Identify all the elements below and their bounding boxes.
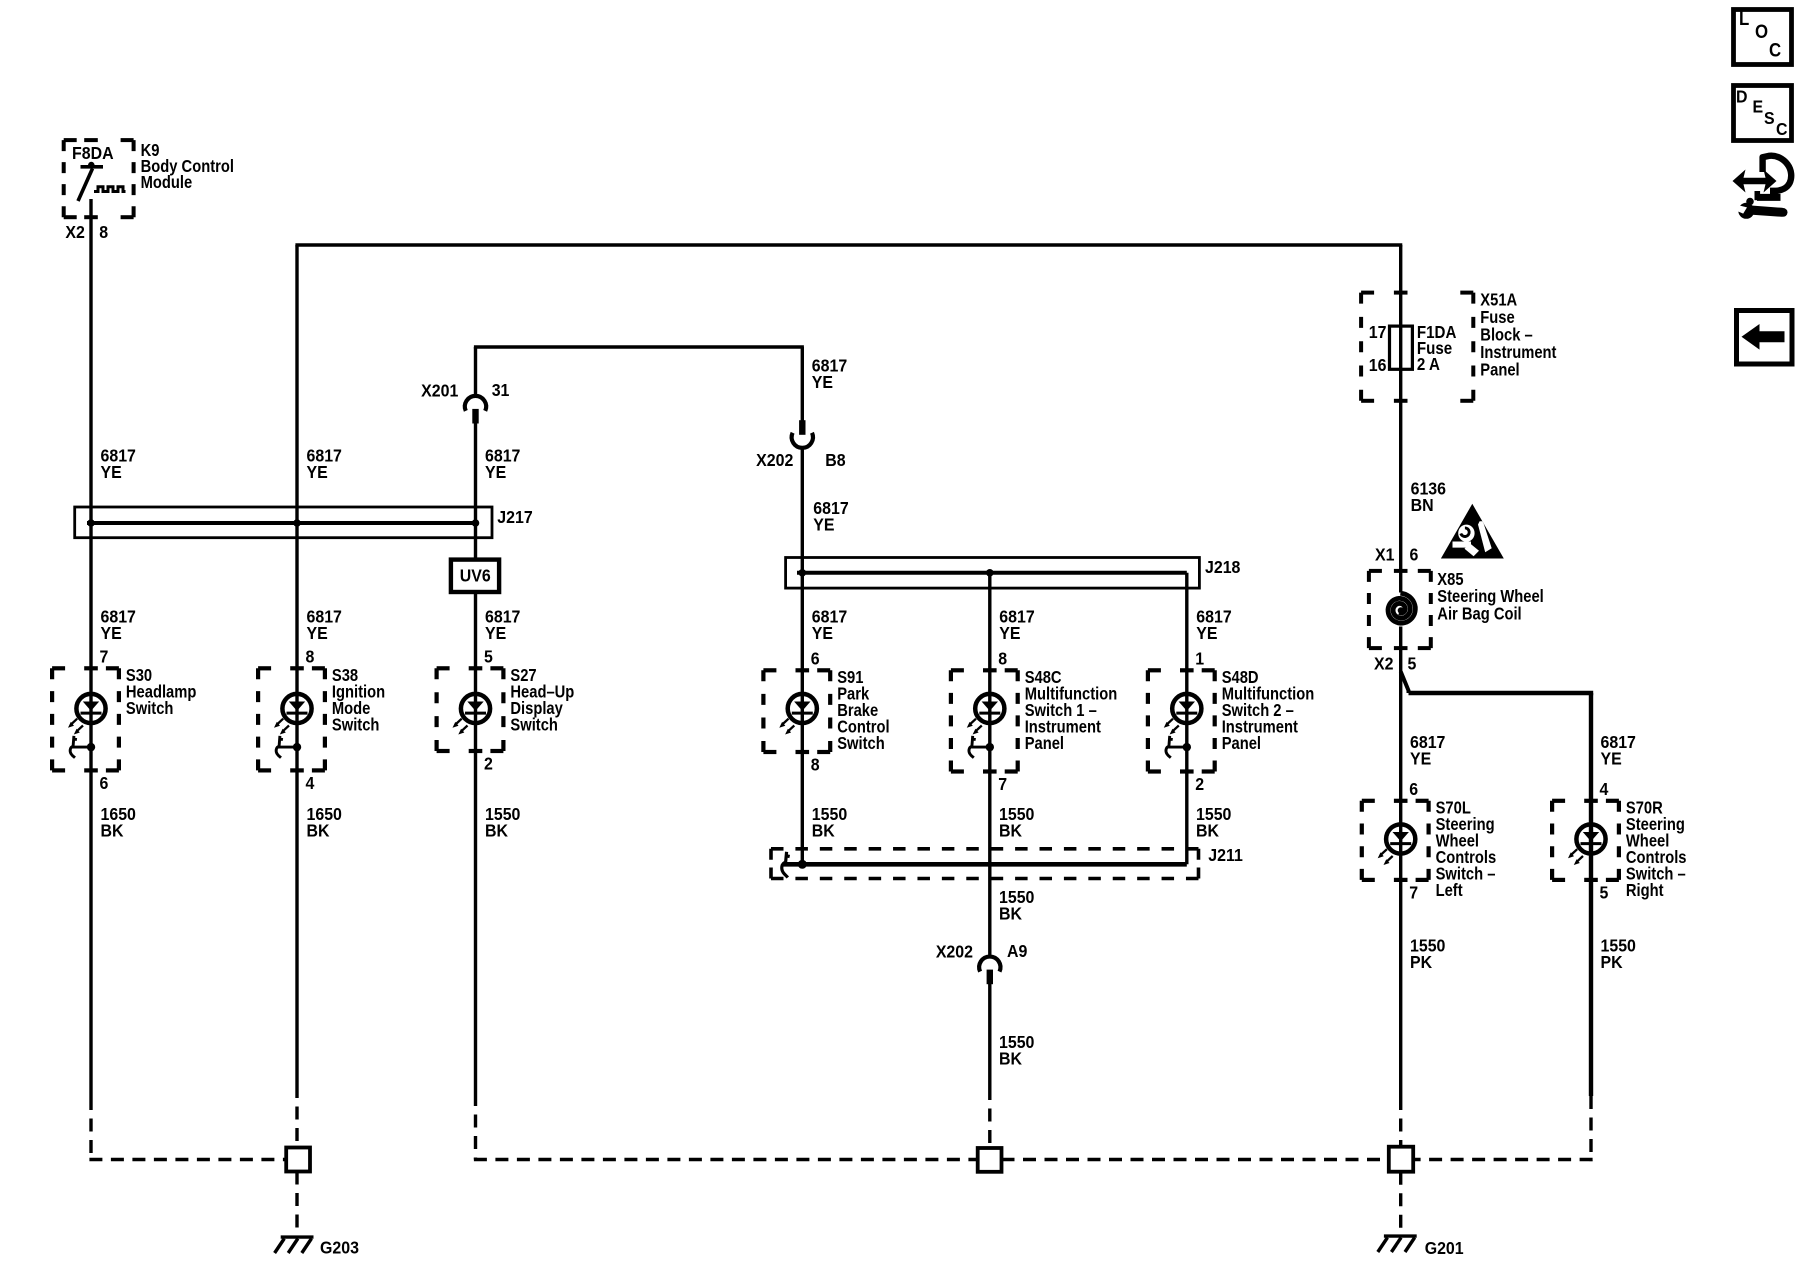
svg-text:F8DA: F8DA [72,143,114,163]
svg-text:UV6: UV6 [460,566,491,586]
icon wrench [1738,203,1754,219]
wire: H1 horizontal from corner to fuse block leg [295,243,1402,246]
svg-text:YE: YE [1601,749,1622,769]
wire: H1 corner down through fuse F1DA to X85 coil (6136 BN) [1399,245,1402,593]
BCM driver symbol [81,165,104,169]
wire: dashed to G201 splice (S70L leg) [1399,1097,1402,1147]
wire: dashed corner S70R leg to ground rail [1589,1096,1592,1161]
dashed wire splice to ground G203 [295,1172,298,1233]
svg-text:Left: Left [1436,881,1463,901]
node: J218 dot at S48C leg [986,569,994,577]
node: J211 dot at S91 leg [798,860,807,869]
option box UV6 [451,560,499,592]
svg-text:X2: X2 [1374,654,1393,674]
svg-text:BK: BK [485,821,509,841]
svg-text:X201: X201 [421,381,458,401]
svg-text:Panel: Panel [1222,734,1261,754]
icon LOC box [1734,10,1792,65]
splice square (middle, X202 A9 leg) [978,1148,1002,1172]
svg-text:YE: YE [485,623,506,643]
svg-text:J211: J211 [1208,845,1243,865]
svg-text:7: 7 [1409,883,1418,903]
wire: dashed rail from S30 corner to G203 splice [89,1158,286,1161]
svg-text:YE: YE [1410,749,1431,769]
svg-text:6: 6 [1410,545,1419,565]
fuse block X51A (dashed box) [1361,291,1374,295]
splice square (G203 leg) [286,1148,310,1172]
svg-text:Switch: Switch [126,699,174,719]
svg-text:PK: PK [1410,952,1433,972]
svg-text:YE: YE [813,515,834,535]
ground G203 [281,1235,314,1238]
wire: J218 right end down through S48D to J211 right end (6817 YE / 1550 BK) [1185,573,1188,865]
svg-text:YE: YE [999,623,1020,643]
wire: branch kink to S70R feed [1401,672,1409,694]
X85 clockspring spiral [1388,593,1415,623]
svg-text:G201: G201 [1425,1238,1464,1258]
svg-text:YE: YE [307,623,328,643]
wire: H3 horizontal to S70R leg [1409,691,1594,695]
connector X201 pin 31 [465,396,486,411]
splice square (G201 leg) [1389,1147,1413,1172]
svg-text:J217: J217 [497,507,532,527]
wire: S70R leg down through switch (6817 YE / 1550 PK) [1589,693,1593,1096]
svg-text:PK: PK [1601,952,1624,972]
wire: H2 corner down to X201 pin 31 [474,347,477,397]
svg-text:5: 5 [1600,883,1609,903]
svg-text:E: E [1753,97,1764,117]
switch S48C Multifunction Switch 1 - Instrument Panel [951,668,964,672]
svg-text:16: 16 [1369,355,1387,375]
svg-text:X2: X2 [65,222,84,242]
dashed wire splice to ground G201 [1399,1172,1402,1231]
svg-text:31: 31 [492,380,510,400]
svg-text:BN: BN [1411,495,1434,515]
svg-text:L: L [1739,8,1749,29]
svg-text:Panel: Panel [1480,360,1519,380]
module K9 Body Control Module (dashed box) [64,138,77,142]
svg-text:8: 8 [998,649,1007,669]
svg-text:BK: BK [999,904,1023,924]
svg-text:2: 2 [484,754,493,774]
svg-text:S: S [1764,108,1775,128]
svg-text:C: C [1776,119,1787,139]
svg-text:YE: YE [485,462,506,482]
icon DESC box [1734,86,1792,141]
svg-text:17: 17 [1369,322,1387,342]
svg-text:BK: BK [307,821,331,841]
svg-text:7: 7 [100,647,109,667]
wire: X201 through J217, UV6, S27 (6817 YE / 1550 BK) [474,423,477,1093]
svg-text:6: 6 [1409,779,1418,799]
svg-text:YE: YE [1196,623,1217,643]
svg-text:C: C [1769,40,1781,61]
svg-text:B8: B8 [825,450,845,470]
svg-text:2 A: 2 A [1417,354,1440,375]
svg-text:X202: X202 [756,450,793,470]
switch S27 Head-Up Display Switch [437,666,450,670]
svg-text:BK: BK [999,1049,1023,1069]
J211 left-end hook [782,852,790,878]
wire: J218 through S48C and J211 to X202 A9 (6817 YE / 1550 BK) [988,573,991,958]
wire: dashed to ground rail corner (S30 leg) [89,1097,92,1160]
splice J211 (dashed box) [771,847,1199,851]
node: J217 dot at S38 leg [293,519,301,527]
switch S48D Multifunction Switch 2 - Instrument Panel [1148,668,1161,672]
svg-text:6: 6 [100,773,109,793]
ground G201 [1384,1234,1417,1237]
splice pack J218 [786,558,1200,589]
splice pack J217 [75,507,492,538]
fuse F1DA 2A [1390,326,1413,369]
wire: dashed rail middle splice to G201 splice [1002,1158,1389,1161]
node: J217 dot at BCM leg [87,519,95,527]
J211 bus line [784,862,1187,867]
switch S91 Park Brake Control Switch [763,668,776,672]
switch S70L Steering Wheel Controls Switch - Left [1362,799,1375,803]
svg-text:5: 5 [484,647,493,667]
wire: H2 horizontal to X202 B8 leg [474,345,804,348]
wire: dashed to middle splice [988,1087,991,1148]
svg-text:Switch: Switch [510,715,558,735]
svg-text:1: 1 [1195,649,1204,669]
svg-text:D: D [1736,87,1747,107]
svg-text:8: 8 [99,222,108,242]
svg-text:X202: X202 [936,942,973,962]
wire: H2 corner down to X202 B8 (6817 YE) [801,347,804,421]
svg-text:Right: Right [1626,881,1664,901]
node: J218 dot at S91 leg [799,569,807,577]
svg-text:Switch: Switch [837,734,885,754]
svg-text:O: O [1755,21,1768,42]
svg-text:2: 2 [1195,774,1204,794]
wire: X85 coil to S70L (6817 YE / 1550 PK) [1399,627,1402,1098]
svg-text:G203: G203 [320,1238,359,1258]
svg-text:4: 4 [1600,779,1609,799]
wire: X202 B8 through J218 and S91 to J211 (6817 YE / 1550 BK) [801,448,804,865]
svg-text:Module: Module [141,173,193,193]
svg-text:Air Bag Coil: Air Bag Coil [1437,604,1521,624]
svg-text:YE: YE [101,462,122,482]
svg-text:BK: BK [1196,821,1220,841]
svg-text:Panel: Panel [1025,734,1064,754]
wire: X202 A9 down solid (1550 BK) [988,984,991,1087]
svg-text:5: 5 [1408,654,1417,674]
svg-text:7: 7 [998,774,1007,794]
wire: BCM X2-8 down through J217 and S30 (6817 YE / 1650 BK) [89,199,92,1097]
svg-text:J218: J218 [1205,557,1240,577]
icon back arrow box [1737,311,1793,365]
switch S38 Ignition Mode Switch [258,666,271,670]
svg-text:BK: BK [999,821,1023,841]
svg-text:YE: YE [812,372,833,392]
connector X202 pin A9 [979,957,1000,972]
wire: H1 corner down through J217 and S38 (6817 YE / 1650 BK) [295,245,298,1085]
svg-text:Switch: Switch [332,715,380,735]
switch S30 Headlamp Switch [52,666,65,670]
node: J217 dot at S27 leg [472,519,480,527]
icon diagnostic outline car/arrow shape [1763,156,1792,191]
wire: dashed to G203 splice (S38 leg) [295,1085,298,1148]
svg-text:BK: BK [812,821,836,841]
svg-text:A9: A9 [1007,941,1027,961]
svg-text:YE: YE [812,623,833,643]
svg-text:BK: BK [101,821,125,841]
wire: dashed to ground rail (S27 leg) [474,1093,477,1160]
svg-text:6: 6 [811,649,820,669]
connector X202 pin B8 [799,420,805,435]
connector X85 steering wheel air bag coil (dashed box) [1369,569,1382,573]
svg-text:YE: YE [307,462,328,482]
svg-text:8: 8 [306,647,315,667]
svg-text:X1: X1 [1375,545,1394,565]
svg-text:YE: YE [101,623,122,643]
svg-text:4: 4 [306,773,315,793]
icon diagnostic double arrow [1733,170,1777,193]
wire: dashed rail from S27 corner to middle splice [474,1158,978,1161]
svg-text:8: 8 [811,755,820,775]
switch S70R Steering Wheel Controls Switch - Right [1552,799,1565,803]
